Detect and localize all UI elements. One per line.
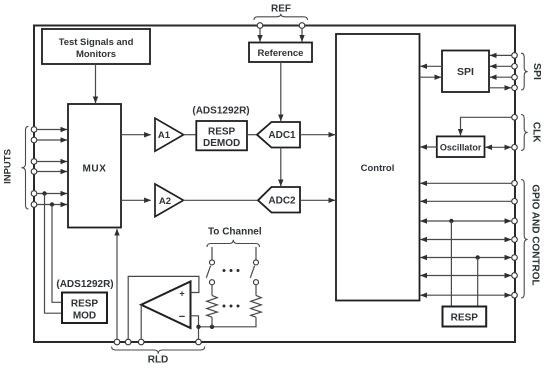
- wire: MUX to A1 (arrow): [121, 134, 151, 136]
- wire: GPIO row4 (double arrow): [421, 239, 512, 241]
- svg-text:MOD: MOD: [73, 311, 96, 322]
- CLK pin 1: [512, 115, 518, 121]
- block: Reference: [249, 43, 312, 63]
- svg-text:RLD: RLD: [148, 355, 169, 366]
- wire: Reference to ADC1 (arrow): [280, 62, 282, 121]
- junction dot row5: [476, 255, 480, 259]
- svg-text:Reference: Reference: [258, 48, 304, 59]
- svg-text:CLK: CLK: [531, 122, 542, 143]
- GPIO pin 7: [512, 292, 518, 298]
- wire: input 6 to MUX: [37, 204, 67, 206]
- block: RESP DEMOD: [196, 121, 247, 150]
- To Channel brace: [207, 240, 260, 247]
- op-amp RLD: [141, 282, 190, 329]
- wire: RLD output down to pin: [140, 305, 142, 340]
- svg-text:RESP: RESP: [208, 127, 236, 138]
- junction dot on input 6: [50, 202, 54, 206]
- RLD pin 1: [114, 339, 120, 345]
- switch 2 top stub: [255, 247, 257, 260]
- GPIO pin 4: [512, 237, 518, 243]
- resistor R1: [207, 295, 218, 317]
- wire: input 2 to MUX: [37, 139, 67, 141]
- wire: Control to SPI upper (arrow left): [421, 65, 443, 67]
- wire: RLD pin up to MUX (arrow up): [116, 229, 118, 339]
- svg-text:ADC2: ADC2: [268, 196, 296, 207]
- svg-text:GPIO AND CONTROL: GPIO AND CONTROL: [530, 184, 541, 285]
- CLK pin 2: [512, 145, 518, 151]
- wire: RLD - input to feedback node: [191, 316, 199, 327]
- chip boundary border: [34, 26, 515, 343]
- svg-text:MUX: MUX: [82, 164, 106, 175]
- wire: feedback node to resistor bottoms: [199, 317, 257, 327]
- switch 1 top contact: [210, 260, 215, 265]
- ellipsis dots between switches: [223, 269, 240, 272]
- wire: REF pin2 to Reference (arrow): [301, 28, 303, 41]
- wire: RESP DEMOD to ADC1: [247, 134, 257, 136]
- wire: Oscillator to Control (arrow left): [421, 146, 437, 148]
- SPI pin 4: [512, 85, 518, 91]
- wire: MUX to A2 (arrow): [121, 199, 151, 201]
- junction dot row3: [449, 219, 453, 223]
- svg-text:INPUTS: INPUTS: [3, 149, 14, 184]
- wire: A2 to ADC2: [183, 199, 258, 201]
- input pin 6: [31, 202, 37, 208]
- REF brace: [254, 14, 308, 20]
- GPIO pin 6: [512, 273, 518, 279]
- wire: input 4 to MUX: [37, 171, 67, 173]
- wire: Control to SPI lower (arrow right): [420, 76, 442, 78]
- wire: SPI pin2 (arrow into SPI): [490, 65, 512, 67]
- GPIO pin 3: [512, 218, 518, 224]
- GPIO pin 2: [512, 199, 518, 205]
- GPIO pin 1: [512, 181, 518, 187]
- SPI brace: [521, 53, 528, 90]
- block: RESP MOD: [62, 293, 107, 324]
- wire: CLK pin1 to Oscillator (arrow down): [461, 117, 512, 135]
- RLD pin 3: [138, 339, 144, 345]
- wire: input 6 tap down to RESP MOD: [52, 205, 62, 303]
- REF pin 2: [299, 23, 305, 29]
- svg-text:Oscillator: Oscillator: [440, 143, 482, 153]
- RLD pin 2: [125, 339, 131, 345]
- junction dot at feedback node: [196, 325, 200, 329]
- input pin 3: [31, 159, 37, 165]
- svg-text:(ADS1292R): (ADS1292R): [56, 279, 113, 290]
- svg-text:SPI: SPI: [457, 66, 474, 78]
- input pin 5: [31, 191, 37, 197]
- wire: GPIO row6 (double arrow): [421, 275, 512, 277]
- svg-text:To Channel: To Channel: [208, 227, 262, 238]
- switch 2 top contact: [254, 260, 259, 265]
- wire: ADC2 to Control (arrow): [300, 199, 335, 201]
- SPI pin 1: [512, 53, 518, 59]
- block: Oscillator: [437, 136, 485, 157]
- wire: switch2 to resistor2: [255, 285, 257, 296]
- op-amp A2: [155, 184, 183, 217]
- block: SPI: [442, 51, 489, 93]
- switch 2 bottom contact: [254, 280, 259, 285]
- wire: GPIO row2 (arrow left): [421, 200, 512, 202]
- wire: SPI pin3 (arrow into SPI): [490, 76, 512, 78]
- wire: GPIO row7 (double arrow): [421, 294, 512, 296]
- junction dot on input 5: [42, 191, 46, 195]
- RLD pin 4: [196, 339, 202, 345]
- wire: switch1 to resistor1: [211, 285, 213, 296]
- resistor R2: [251, 295, 262, 317]
- SPI pin 2: [512, 64, 518, 70]
- svg-text:RESP: RESP: [451, 313, 479, 324]
- wire: A1 to RESP DEMOD: [184, 134, 197, 136]
- ADC2: [258, 187, 300, 213]
- wire: Test Signals to MUX (arrow down): [95, 64, 97, 103]
- switch 2 blade: [250, 266, 254, 278]
- wire: row5 tap down to RESP: [477, 258, 479, 307]
- wire: row3 tap down to RESP: [450, 221, 452, 307]
- wire: input 5 to MUX: [37, 193, 67, 195]
- wire: SPI out to pin4 (arrow right): [489, 87, 511, 89]
- input pin 1: [31, 127, 37, 133]
- junction dot at resistor bottom: [210, 325, 214, 329]
- wire: resistor1 to node: [211, 317, 213, 327]
- wire: GPIO row3 (double arrow): [421, 220, 512, 222]
- svg-text:RESP: RESP: [71, 299, 99, 310]
- block: MUX: [68, 104, 121, 228]
- svg-text:(ADS1292R): (ADS1292R): [192, 106, 249, 117]
- INPUTS brace: [22, 126, 29, 209]
- svg-text:DEMOD: DEMOD: [203, 138, 240, 149]
- svg-text:SPI: SPI: [531, 63, 543, 80]
- svg-text:A1: A1: [158, 130, 171, 141]
- switch 1 bottom contact: [210, 280, 215, 285]
- wire: input 3 to MUX: [37, 161, 67, 163]
- svg-text:REF: REF: [271, 4, 291, 15]
- wire: GPIO row1 (arrow left): [421, 182, 512, 184]
- wire: GPIO row5 (double arrow): [421, 257, 512, 259]
- input pin 2: [31, 137, 37, 143]
- ellipsis dots between resistors: [223, 305, 240, 308]
- svg-text:A2: A2: [159, 196, 171, 207]
- svg-text:Monitors: Monitors: [76, 49, 116, 60]
- wire: REF pin1 to Reference (arrow): [259, 28, 261, 41]
- switch 1 top stub: [211, 247, 213, 260]
- wire: feedback node down to pin: [198, 327, 200, 340]
- ADC1: [257, 122, 300, 148]
- svg-text:Control: Control: [361, 163, 395, 174]
- wire: ADC1 to ADC2 (arrow): [280, 148, 282, 187]
- wire: input 5 tap down to RESP MOD: [45, 194, 63, 314]
- wire: SPI pin1 (arrow into SPI): [490, 54, 512, 56]
- wire: ADC1 to Control (arrow): [300, 134, 335, 136]
- op-amp A1: [155, 118, 184, 151]
- GPIO brace: [521, 180, 528, 299]
- svg-text:−: −: [179, 311, 185, 323]
- wire: input 1 to MUX: [37, 129, 67, 131]
- GPIO pin 5: [512, 255, 518, 261]
- CLK brace: [521, 115, 528, 151]
- block: Test Signals and Monitors: [42, 29, 150, 64]
- wire: RLD + input loop: [128, 276, 199, 339]
- input pin 4: [31, 169, 37, 175]
- block: RESP: [443, 307, 487, 327]
- switch 1 blade: [206, 266, 210, 278]
- svg-text:ADC1: ADC1: [268, 130, 296, 141]
- block: Control: [336, 34, 420, 301]
- RLD brace: [112, 347, 205, 354]
- svg-text:Test Signals and: Test Signals and: [59, 37, 134, 48]
- REF pin 1: [257, 23, 263, 29]
- wire: Oscillator to CLK pin2 (double arrow): [486, 146, 512, 148]
- svg-text:+: +: [179, 289, 184, 299]
- SPI pin 3: [512, 74, 518, 80]
